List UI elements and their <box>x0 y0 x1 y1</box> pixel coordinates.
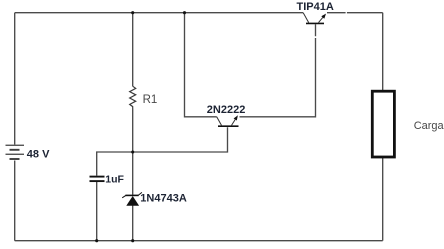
wire left rail lower (battery -) <box>14 161 16 241</box>
svg-text:48 V: 48 V <box>27 149 50 161</box>
svg-text:Carga: Carga <box>414 120 444 132</box>
wire Q1 base to node A <box>133 127 228 152</box>
load resistor Carga <box>372 91 394 157</box>
wire capacitor bottom lead <box>96 182 98 241</box>
wire top rail right segment <box>327 12 383 14</box>
capacitor C1 1uF <box>90 177 105 182</box>
wire load bottom to bottom rail <box>382 157 384 241</box>
wire right drop to load <box>382 13 384 91</box>
wire Q1 collector branch from top rail <box>185 13 217 117</box>
node dot top rail at Q1 collector branch <box>183 11 186 14</box>
svg-text:1uF: 1uF <box>105 174 124 186</box>
wire bottom rail <box>15 240 383 242</box>
resistor R1 <box>130 86 136 108</box>
node A dot (R1 / zener / cap / Q1 base) <box>131 150 134 153</box>
wire R1 bottom lead to node A <box>132 109 134 153</box>
wire top rail left segment <box>15 12 304 14</box>
node dot top rail at R1 <box>131 11 134 14</box>
wire node A to capacitor <box>97 152 133 176</box>
wire Q1 emitter to Q2 base <box>240 24 316 117</box>
node dot bottom rail at capacitor <box>95 239 98 242</box>
svg-text:2N2222: 2N2222 <box>207 104 246 116</box>
transistor Q1 2N2222 <box>217 115 239 126</box>
wire left rail upper (battery +) <box>14 13 16 145</box>
wire R1 top lead <box>132 13 134 87</box>
transistor Q2 TIP41A <box>303 13 326 24</box>
zener diode D1 1N4743A <box>122 192 142 205</box>
battery B1 <box>6 145 25 159</box>
svg-text:R1: R1 <box>143 94 158 106</box>
wire zener bottom lead <box>132 206 134 241</box>
svg-text:1N4743A: 1N4743A <box>140 193 187 205</box>
node dot bottom rail at zener <box>131 239 134 242</box>
wire node A to zener top <box>132 152 134 195</box>
svg-text:TIP41A: TIP41A <box>297 1 334 13</box>
